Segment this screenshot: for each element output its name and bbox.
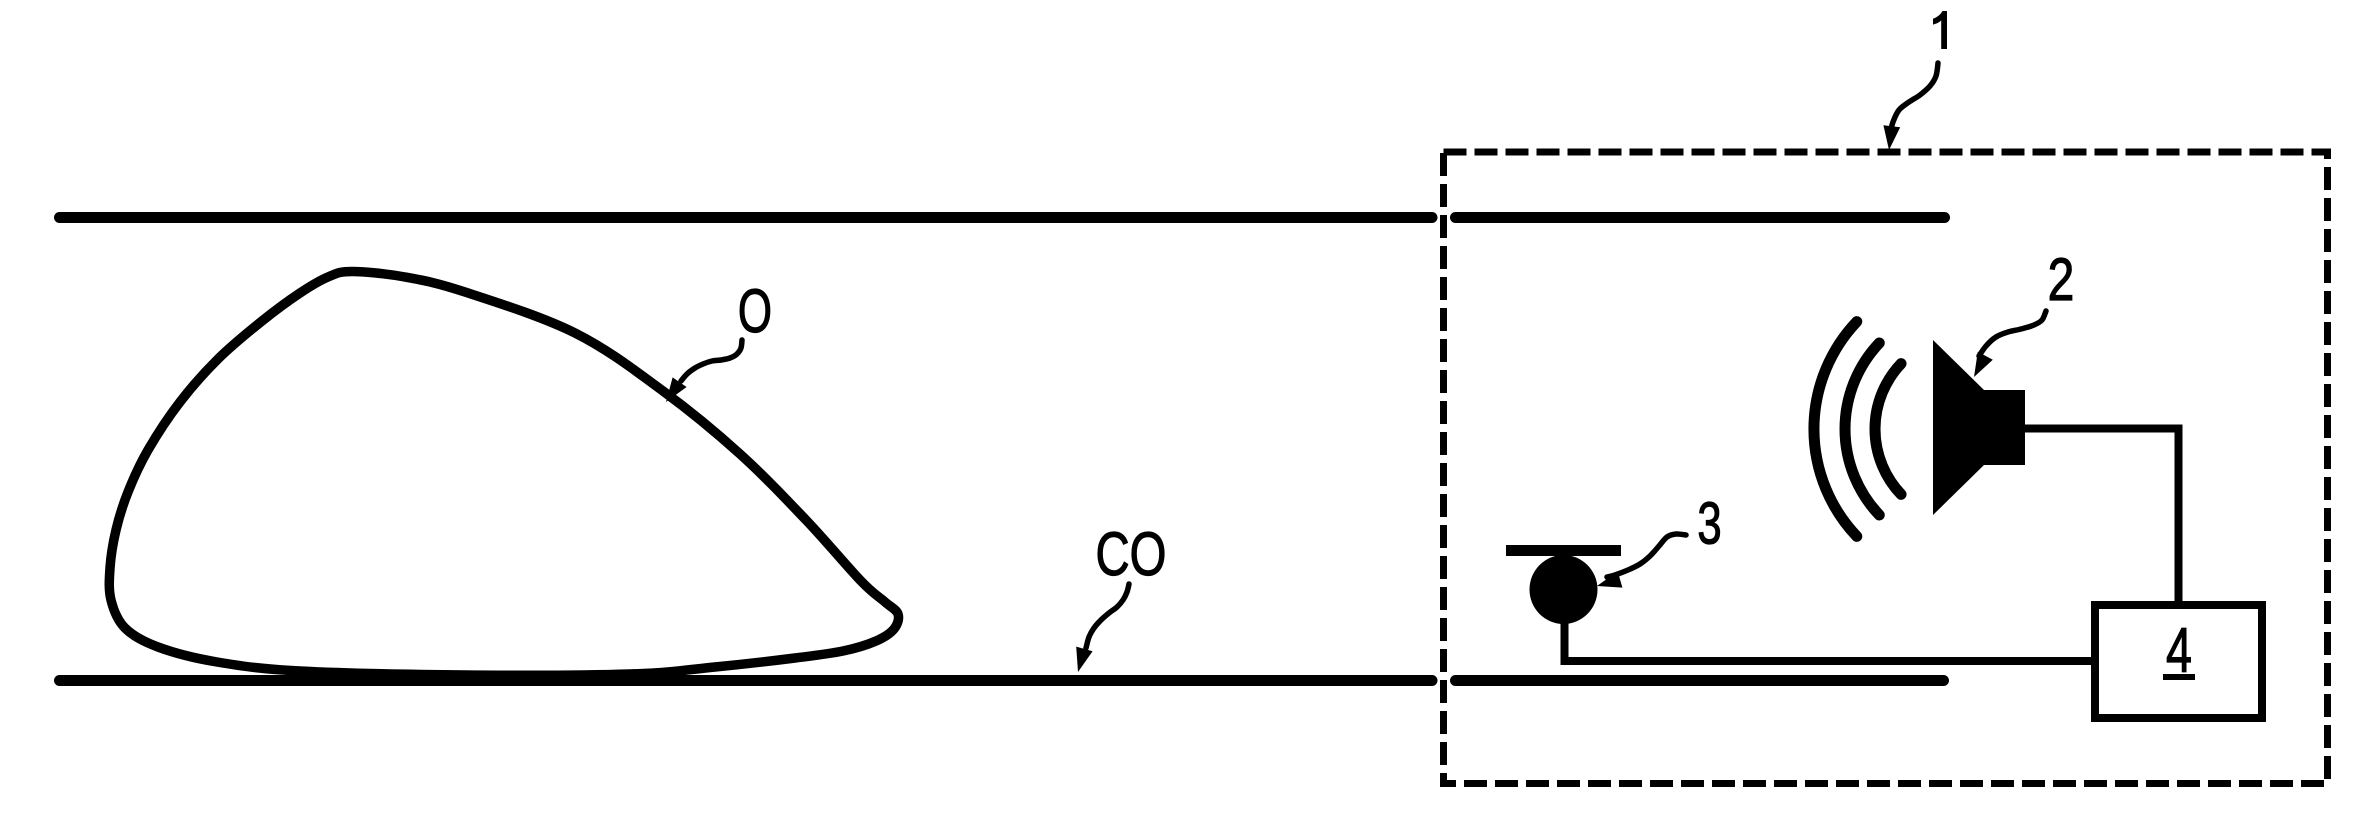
wire: conduit CO bottom wall, left segment (60, 675, 1433, 686)
loudspeaker 2 (1933, 340, 2025, 515)
leader arrow to box 1 (1883, 63, 1938, 150)
leader arrow to object O (666, 340, 742, 402)
leader arrow to conduit CO (1076, 584, 1129, 672)
sound wave arc middle (1845, 343, 1879, 515)
wire: conduit CO top wall, right segment (1456, 212, 1945, 223)
svg-text:O: O (738, 278, 772, 346)
microphone 3 mounting bar (1506, 545, 1621, 556)
svg-text:2: 2 (2048, 246, 2075, 313)
object O outline (109, 272, 898, 676)
label 1 (1933, 11, 1947, 49)
wire: conduit CO bottom wall, right segment (1456, 675, 1944, 686)
wire from loudspeaker 2 to unit 4 (2025, 429, 2179, 606)
leader arrow to loudspeaker 2 (1974, 311, 2046, 377)
label 4 underline (2163, 674, 2195, 680)
dashed enclosure box 1 (1444, 152, 2328, 784)
processing unit 4 box (2095, 605, 2262, 718)
wire from microphone 3 to unit 4 (1565, 618, 2096, 661)
leader arrow to microphone 3 (1597, 534, 1686, 588)
svg-text:3: 3 (1697, 490, 1721, 556)
svg-text:CO: CO (1096, 520, 1167, 588)
microphone 3 body (1530, 555, 1598, 624)
sound wave arc outer (1814, 322, 1857, 537)
sound wave arc inner (1875, 364, 1901, 495)
wire: conduit CO top wall, left segment (60, 212, 1433, 223)
